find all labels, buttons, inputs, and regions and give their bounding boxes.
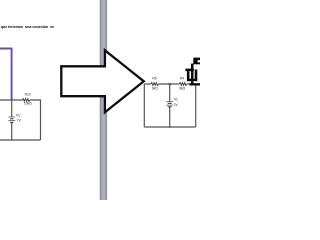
- resistor R10: [22, 99, 29, 102]
- svg-text:10kΩ: 10kΩ: [24, 102, 32, 106]
- wire right bottom: [144, 126, 195, 128]
- node junction dot bottom mid: [169, 126, 171, 128]
- node junction dot left bottom: [11, 139, 13, 141]
- svg-text:R4: R4: [180, 77, 184, 81]
- wire V1 stems: [169, 84, 171, 127]
- wire mid top: [158, 83, 179, 85]
- wire VC stems: [11, 100, 13, 140]
- wire left right side: [30, 100, 41, 140]
- svg-text:R10: R10: [25, 93, 31, 97]
- wire after R4: [187, 83, 191, 85]
- battery source V1: [166, 102, 173, 107]
- resistor R5: [151, 83, 158, 86]
- battery source VC: [8, 117, 15, 122]
- wire right right side: [195, 86, 197, 128]
- svg-text:VC: VC: [16, 114, 21, 118]
- node junction dot (purple) top mid: [169, 83, 172, 85]
- component U1 selected (bold outline): [185, 58, 200, 86]
- svg-text:V1: V1: [174, 98, 178, 102]
- svg-text:9kΩ: 9kΩ: [152, 86, 158, 90]
- wire left top: [0, 99, 22, 101]
- resistor R4: [179, 83, 186, 86]
- wire right left side: [143, 84, 145, 127]
- svg-text:que tenemos una conexión en: que tenemos una conexión en: [1, 25, 55, 29]
- wire right top: [144, 83, 151, 85]
- wire left bottom: [0, 139, 41, 141]
- block arrow: [61, 50, 144, 112]
- svg-text:9kΩ: 9kΩ: [179, 86, 185, 90]
- svg-text:R5: R5: [152, 77, 156, 81]
- wire purple net: [0, 49, 12, 100]
